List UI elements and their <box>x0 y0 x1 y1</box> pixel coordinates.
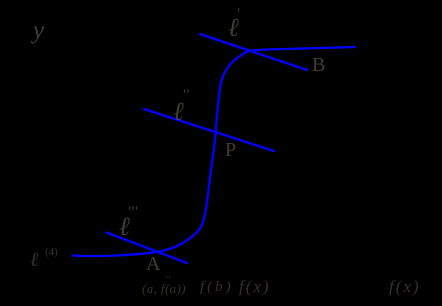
svg-text:f(x): f(x) <box>239 277 271 296</box>
svg-text:′′′: ′′′ <box>128 204 139 221</box>
svg-text:ℓ: ℓ <box>30 249 39 271</box>
svg-text:A: A <box>146 253 161 275</box>
svg-text:(4): (4) <box>45 246 58 258</box>
svg-text:f(x): f(x) <box>389 277 421 296</box>
svg-text:′: ′ <box>237 6 241 23</box>
svg-text:′′: ′′ <box>183 87 190 104</box>
svg-text:B: B <box>312 54 325 76</box>
svg-text:y: y <box>30 17 45 44</box>
svg-text:(a, f(a)): (a, f(a)) <box>142 281 186 296</box>
svg-text:′′: ′′ <box>166 275 170 286</box>
svg-text:P: P <box>225 139 236 161</box>
svg-text:f(b): f(b) <box>200 279 234 295</box>
